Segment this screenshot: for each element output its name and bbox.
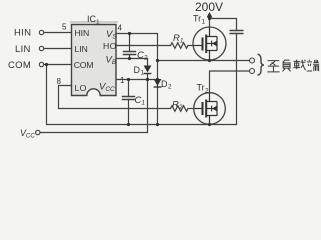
svg-text:R2: R2	[172, 100, 183, 112]
svg-text:2: 2	[168, 84, 172, 91]
svg-text:200V: 200V	[195, 0, 223, 14]
svg-text:5: 5	[62, 23, 67, 32]
svg-text:HIN: HIN	[14, 28, 31, 39]
svg-text:COM: COM	[74, 60, 93, 70]
svg-text:1: 1	[141, 70, 145, 77]
svg-text:LO: LO	[75, 83, 87, 93]
svg-text:D: D	[161, 79, 168, 89]
svg-text:1: 1	[202, 19, 206, 26]
svg-text:LIN: LIN	[75, 44, 88, 54]
svg-text:C2: C2	[137, 50, 148, 62]
svg-text:8: 8	[57, 77, 62, 86]
svg-text:2: 2	[205, 88, 209, 95]
svg-text:Tr: Tr	[193, 14, 201, 24]
svg-text:D: D	[134, 65, 141, 75]
svg-text:LIN: LIN	[15, 44, 31, 55]
svg-text:C1: C1	[135, 95, 146, 107]
svg-text:1: 1	[96, 19, 100, 26]
svg-text:1: 1	[120, 76, 125, 85]
svg-text:HIN: HIN	[75, 28, 90, 38]
svg-text:Tr: Tr	[197, 83, 205, 93]
svg-text:4: 4	[118, 24, 123, 33]
svg-text:VCC: VCC	[20, 128, 35, 139]
svg-text:COM: COM	[8, 60, 31, 71]
svg-text:R1: R1	[173, 33, 184, 45]
svg-text:HO: HO	[103, 41, 117, 51]
